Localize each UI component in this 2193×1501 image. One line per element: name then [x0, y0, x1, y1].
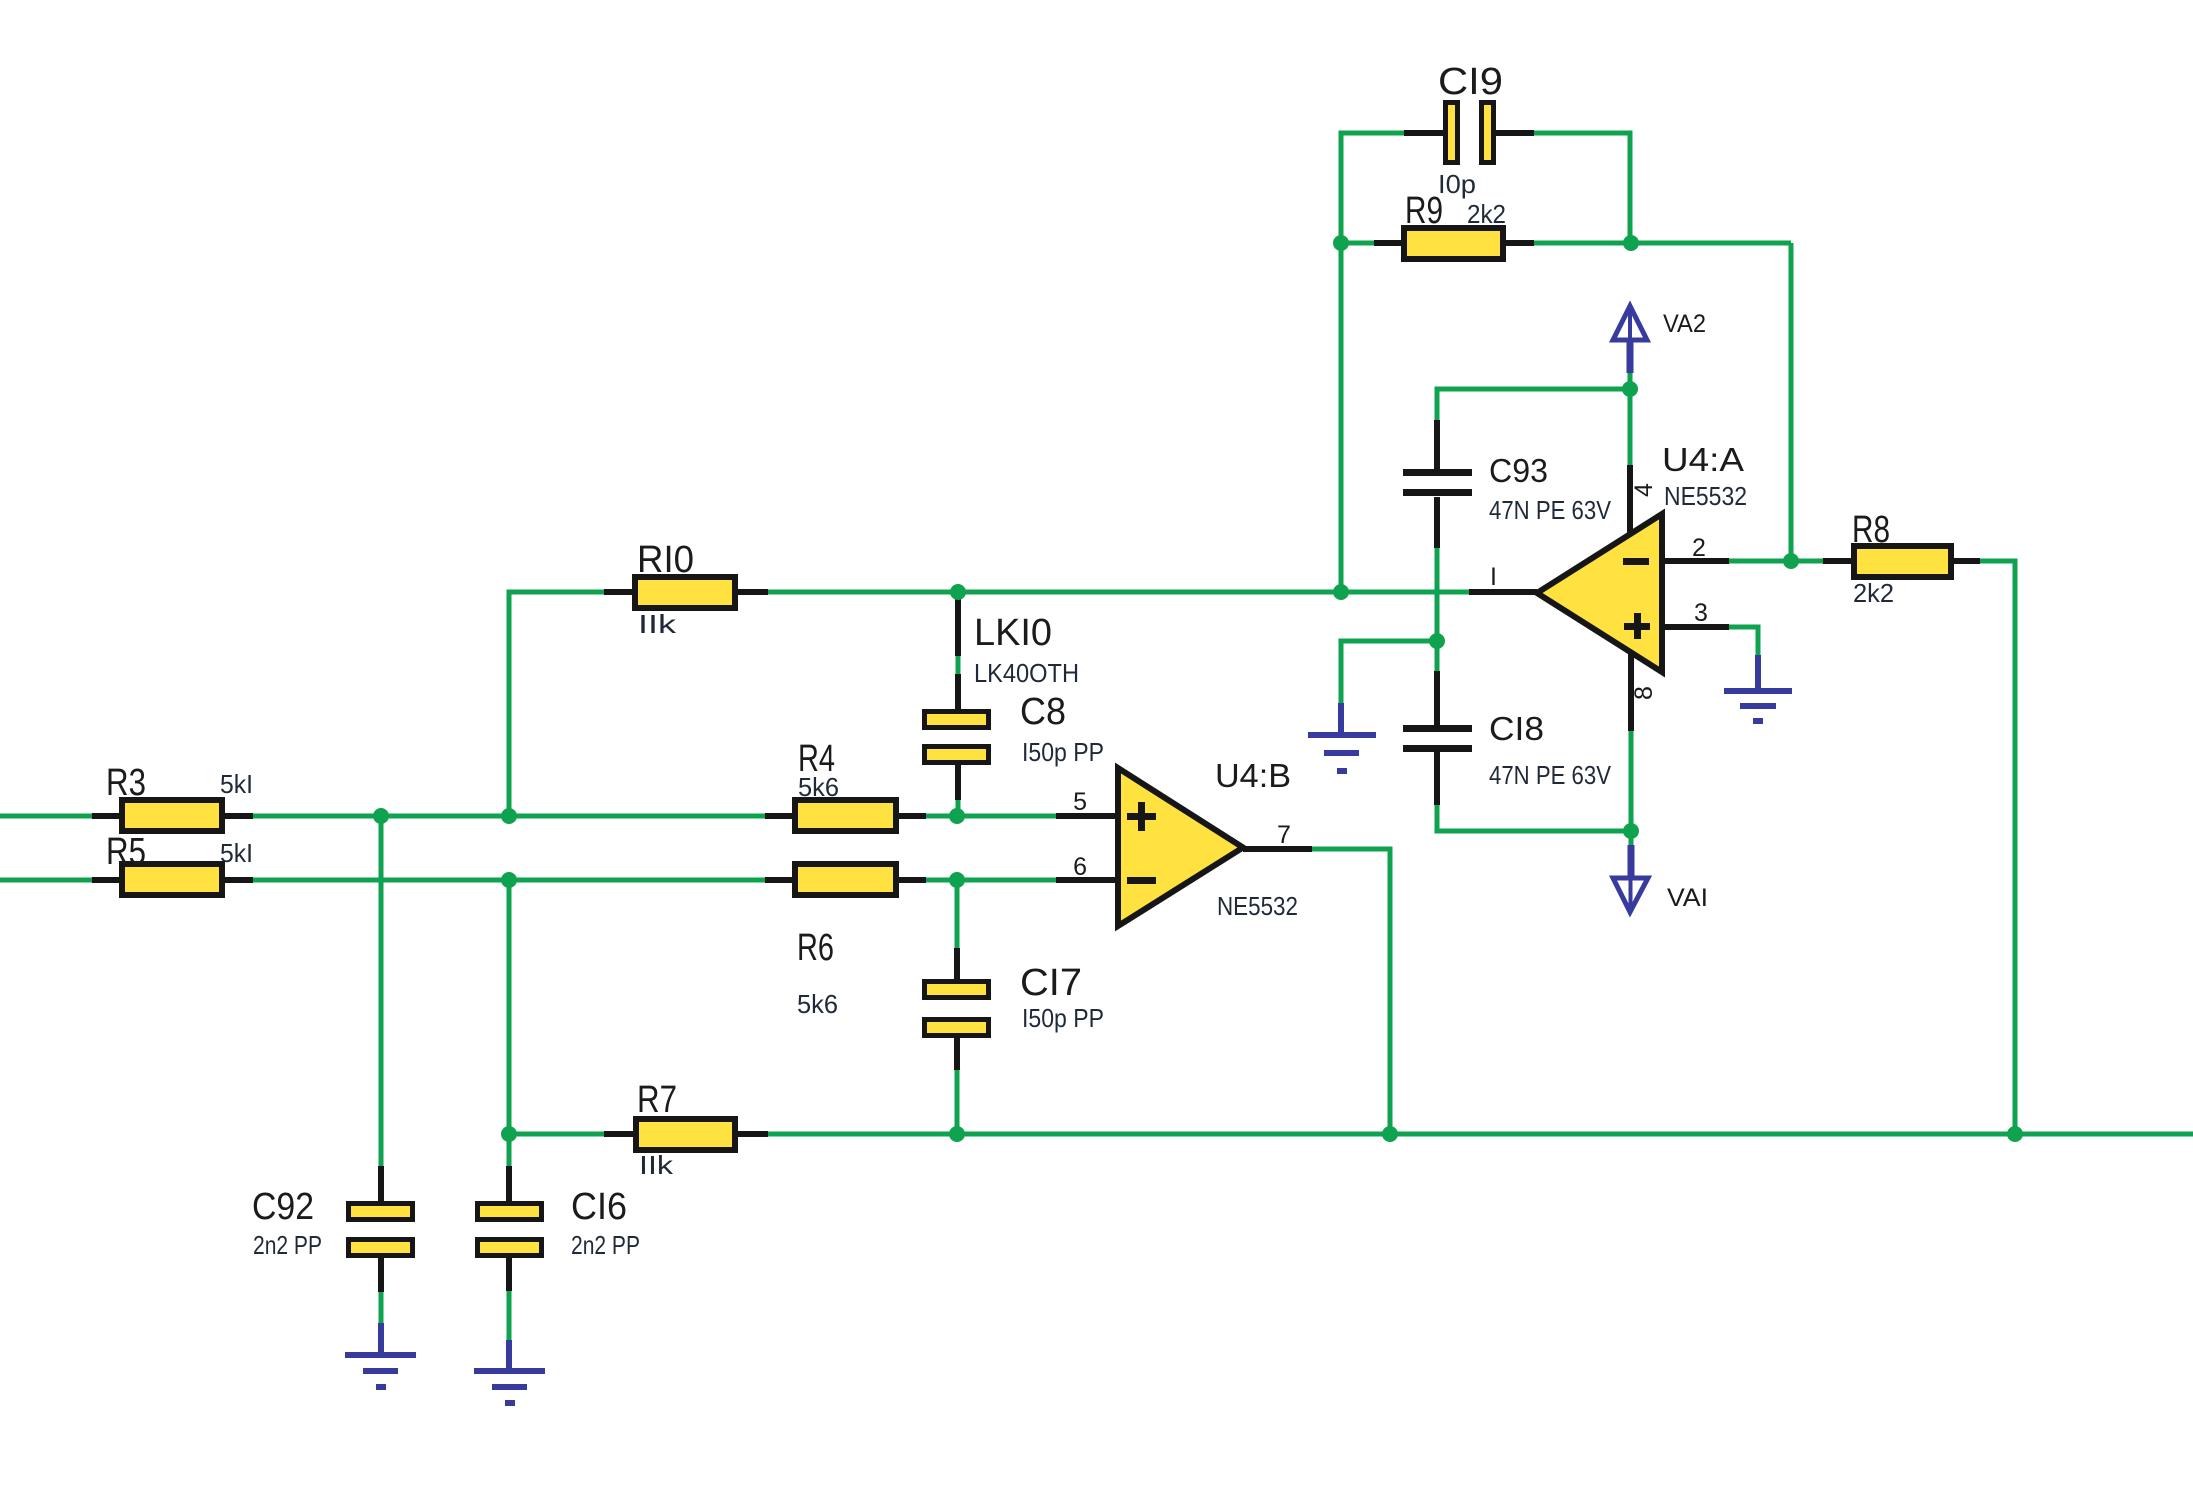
svg-text:5k6: 5k6 — [798, 772, 839, 802]
node dot pin2/R8 — [1783, 553, 1799, 569]
svg-text:2n2 PP: 2n2 PP — [253, 1230, 322, 1260]
svg-text:R3: R3 — [106, 762, 146, 804]
svg-text:CI8: CI8 — [1489, 710, 1544, 747]
node dot R9/C19 right — [1623, 235, 1639, 251]
lead U4:B pin7 — [1243, 846, 1312, 852]
svg-text:IIk: IIk — [639, 1150, 674, 1180]
wire vertical C92 branch from pin5 net (x=381) — [379, 816, 384, 1166]
node dot VA1 — [1623, 823, 1639, 839]
lead C17 bottom — [954, 1036, 960, 1070]
svg-text:I0p: I0p — [1438, 169, 1476, 199]
svg-text:7: 7 — [1277, 821, 1291, 849]
lead U4:B pin6 — [1056, 877, 1118, 883]
svg-text:2: 2 — [1692, 534, 1706, 562]
capacitor C93 — [1403, 469, 1472, 496]
node dot output on bus — [1382, 1126, 1398, 1142]
lead U4:A pin3 — [1662, 624, 1729, 630]
capacitor C19 — [1446, 103, 1494, 163]
lead C8 bottom — [955, 763, 961, 800]
resistor R4 — [795, 800, 896, 831]
wire U4:B output pin7 down to bus (x=1390) — [1312, 849, 1390, 1134]
node dot R4/C8/pin5 — [949, 808, 965, 824]
svg-text:C93: C93 — [1489, 452, 1548, 489]
lead R8 — [1823, 558, 1980, 564]
svg-text:R5: R5 — [106, 831, 146, 873]
wire net pin1 of U4:A (y=592 horizontal from R10) — [509, 592, 1469, 816]
resistor R5 — [122, 864, 222, 895]
node dot R10/LK10/pin1 — [950, 584, 966, 600]
lead C18 top — [1434, 671, 1440, 725]
lead R6 — [765, 877, 926, 883]
op-amp U4:A — [1537, 514, 1662, 672]
svg-text:I50p PP: I50p PP — [1022, 1003, 1104, 1033]
wire net pin5 (R3 to R4 to U4:B pin 5, y=816) — [0, 814, 1056, 819]
ground left of C18 — [1308, 703, 1376, 774]
lead U4:A pin2 — [1662, 558, 1729, 564]
capacitor C18 — [1403, 725, 1472, 752]
svg-text:8: 8 — [1630, 686, 1658, 700]
lead C16 top — [506, 1166, 512, 1203]
capacitor C8 — [925, 712, 989, 763]
svg-text:2k2: 2k2 — [1853, 578, 1894, 608]
wire C93/C18 vertical (x=1437) — [1435, 548, 1440, 671]
svg-text:5k6: 5k6 — [797, 989, 838, 1019]
wire pin8 to VA1 node (x=1631) — [1629, 731, 1634, 846]
wire vertical C16/R7 branch from pin6 net (x=509) — [507, 880, 512, 1166]
svg-text:CI9: CI9 — [1438, 61, 1503, 103]
resistor R3 — [122, 800, 222, 831]
lead C16 bottom — [506, 1255, 512, 1291]
wire VA2 to pin4 (x=1630) — [1628, 373, 1633, 465]
svg-text:CI6: CI6 — [571, 1186, 627, 1228]
svg-text:NE5532: NE5532 — [1664, 481, 1747, 511]
wire pin3 to ground — [1729, 627, 1758, 655]
node dot R7 left on bus — [501, 1126, 517, 1142]
node dot R8 leg on bus — [2007, 1126, 2023, 1142]
lead LK10 top (link) — [955, 598, 961, 656]
lead C93 top (pin4 branch) — [1434, 420, 1440, 469]
svg-text:NE5532: NE5532 — [1217, 891, 1298, 921]
svg-text:47N PE 63V: 47N PE 63V — [1489, 495, 1612, 525]
wire ground stub from C93/C18 node (to left ground) — [1341, 641, 1437, 703]
wire C8 bottom to pin5 node — [956, 800, 961, 816]
svg-text:R7: R7 — [637, 1079, 677, 1121]
lead C92 bottom — [378, 1255, 384, 1292]
node dot C16 branch on pin6 net — [501, 872, 517, 888]
lead U4:A pin4 — [1627, 465, 1633, 534]
resistor R7 — [636, 1119, 735, 1150]
svg-text:VAI: VAI — [1667, 884, 1708, 912]
wire net C19 (y=133) — [1341, 133, 1630, 592]
svg-text:R6: R6 — [797, 927, 834, 969]
ground below C16 — [474, 1340, 545, 1406]
svg-text:U4:A: U4:A — [1662, 441, 1744, 478]
wire C17 bottom to bus — [955, 1070, 960, 1134]
svg-text:LK40OTH: LK40OTH — [974, 658, 1079, 688]
capacitor C92 — [349, 1204, 413, 1256]
svg-text:R8: R8 — [1852, 509, 1890, 551]
node dot R6/C17/pin6 — [949, 872, 965, 888]
capacitor C17 — [925, 982, 989, 1036]
svg-text:C8: C8 — [1020, 691, 1066, 733]
svg-text:5kI: 5kI — [220, 769, 253, 799]
svg-text:U4:B: U4:B — [1215, 757, 1291, 794]
svg-text:IIk: IIk — [638, 609, 677, 639]
lead R9 — [1374, 240, 1534, 246]
ground at U4:A pin3 — [1724, 655, 1792, 724]
lead LK10 to C8 — [955, 674, 961, 711]
svg-text:2n2 PP: 2n2 PP — [571, 1230, 640, 1260]
lead R4 — [765, 813, 926, 819]
svg-text:6: 6 — [1073, 853, 1087, 881]
wire C92 to ground — [379, 1292, 384, 1326]
svg-text:47N PE 63V: 47N PE 63V — [1489, 760, 1612, 790]
lead U4:B pin5 — [1056, 813, 1118, 819]
wire net R9 (y=243) — [1341, 241, 1791, 246]
lead R5 — [92, 877, 253, 883]
power symbol VA1 — [1613, 845, 1648, 912]
wire feedback node down from R9 net to pin2 node (x=1791) — [1789, 243, 1794, 561]
resistor R9 — [1404, 228, 1503, 259]
wire LK10 link gap (x=958) — [956, 656, 961, 674]
lead U4:A pin1 — [1469, 589, 1537, 595]
lead C18 bottom — [1434, 752, 1440, 805]
svg-text:LKI0: LKI0 — [974, 612, 1052, 654]
wire R8 right leg down to bus (x=2015) — [1980, 561, 2015, 1134]
svg-text:5kI: 5kI — [220, 838, 253, 868]
svg-text:C92: C92 — [252, 1186, 314, 1228]
svg-text:RI0: RI0 — [637, 539, 694, 581]
node dot C92 branch — [373, 808, 389, 824]
node dot R10 leg on pin5 net — [501, 808, 517, 824]
svg-text:I: I — [1490, 563, 1497, 591]
capacitor C16 — [478, 1204, 542, 1256]
lead C92 top — [378, 1166, 384, 1203]
svg-text:3: 3 — [1694, 599, 1708, 627]
lead U4:A pin8 — [1628, 652, 1634, 731]
wire C16 to ground — [507, 1291, 512, 1343]
wire C17 top from pin6 node — [955, 880, 960, 948]
lead R7 — [604, 1131, 768, 1137]
node dot C17 on bus — [949, 1126, 965, 1142]
resistor R8 — [1854, 546, 1951, 577]
svg-text:I50p PP: I50p PP — [1022, 737, 1104, 767]
svg-text:VA2: VA2 — [1663, 310, 1706, 338]
node dot R9 leg on pin1 net — [1333, 584, 1349, 600]
svg-text:4: 4 — [1630, 483, 1658, 497]
svg-text:5: 5 — [1073, 788, 1087, 816]
resistor R10 — [635, 577, 735, 608]
lead C93 bottom — [1434, 497, 1440, 548]
node dot R9/C19 left — [1333, 235, 1349, 251]
wire VA2 distribution (y=389) — [1437, 389, 1630, 422]
lead R3 — [92, 813, 253, 819]
lead C17 top — [954, 948, 960, 981]
power symbol VA2 — [1613, 306, 1647, 373]
op-amp U4:B — [1118, 768, 1243, 926]
wire net pin6 (R5 to R6 to U4:B pin 6, y=880) — [0, 878, 1056, 883]
svg-text:2k2: 2k2 — [1467, 199, 1506, 229]
lead C19 — [1404, 130, 1534, 136]
wire VA1 distribution (y=831) — [1437, 805, 1631, 831]
resistor R6 — [795, 864, 896, 895]
ground below C92 — [345, 1323, 416, 1390]
wire bottom feedback bus (y=1132) — [509, 1132, 2193, 1137]
svg-text:CI7: CI7 — [1020, 962, 1082, 1004]
node dot VA2 — [1622, 381, 1638, 397]
node dot C93/C18/ground — [1429, 633, 1445, 649]
wire net pin2/R8 (y=561) — [1729, 559, 1823, 564]
lead R10 — [604, 589, 768, 595]
